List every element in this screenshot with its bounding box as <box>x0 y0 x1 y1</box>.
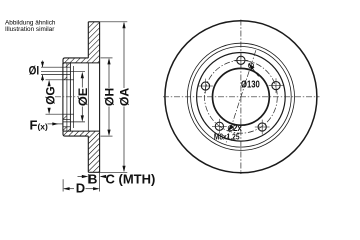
svg-text:B: B <box>88 171 97 186</box>
svg-text:ØI: ØI <box>29 63 39 77</box>
svg-text:ØH: ØH <box>102 88 116 106</box>
svg-text:ØG: ØG <box>43 86 57 104</box>
svg-text:ØA: ØA <box>118 87 132 106</box>
svg-text:ØE: ØE <box>76 88 90 106</box>
svg-text:C (MTH): C (MTH) <box>106 171 156 186</box>
svg-text:D: D <box>76 181 85 196</box>
svg-text:Ø130: Ø130 <box>241 80 260 91</box>
svg-text:M8x1,25: M8x1,25 <box>214 132 240 141</box>
svg-text:Illustration similar: Illustration similar <box>5 26 55 33</box>
